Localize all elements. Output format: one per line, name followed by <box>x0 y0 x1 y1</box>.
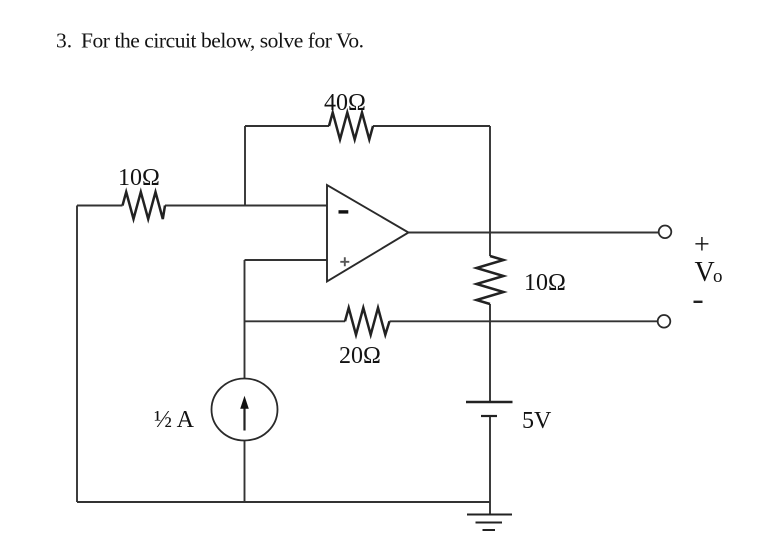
wire: inverting-input row left segment <box>77 205 123 207</box>
wire: non-inverting input horizontal <box>245 259 328 261</box>
battery V1 long plate <box>466 401 513 404</box>
wire: inverting-input row right segment to op-amp <box>165 205 327 207</box>
wire: output row to terminal <box>409 232 659 234</box>
current source I1 circle <box>212 379 278 441</box>
current source I1 arrow head <box>240 396 249 409</box>
svg-text:For the circuit below, solve f: For the circuit below, solve for Vo. <box>81 29 364 53</box>
svg-text:V: V <box>695 257 715 288</box>
wire: feedback left vertical <box>244 126 246 206</box>
resistor R4 10ohm (right, vertical) <box>477 256 504 304</box>
resistor R2 40ohm (feedback, horizontal) <box>329 113 373 140</box>
wire: lower output row left segment with 20ohm <box>245 320 346 322</box>
wire: left vertical branch <box>76 206 78 503</box>
svg-text:10Ω: 10Ω <box>524 270 566 296</box>
label: output minus sign <box>694 301 703 303</box>
svg-text:5V: 5V <box>522 408 552 434</box>
terminal: negative output node circle <box>658 315 671 328</box>
wire: feedback top left segment <box>245 125 329 127</box>
wire: bottom horizontal rail <box>77 501 490 503</box>
svg-text:3.: 3. <box>56 29 72 53</box>
ground symbol <box>467 515 512 531</box>
wire: current source bottom to rail <box>244 441 246 503</box>
svg-text:o: o <box>713 266 723 287</box>
resistor R1 10ohm (left, horizontal) <box>123 192 166 219</box>
op-amp U1 triangle <box>327 185 409 282</box>
battery V1 short plate <box>481 415 497 417</box>
op-amp U1 non-inverting (+) marker <box>340 257 349 266</box>
wire: lower output row right segment to terminal <box>390 320 658 322</box>
svg-text:½ A: ½ A <box>154 407 195 433</box>
terminal: positive output node circle <box>659 226 672 239</box>
wire: feedback top right segment <box>373 125 490 127</box>
svg-text:+: + <box>694 230 710 261</box>
wire: feedback right vertical to output node <box>489 126 491 233</box>
op-amp U1 inverting (-) marker <box>339 210 349 213</box>
wire: non-inverting vertical down to current source <box>244 260 246 378</box>
resistor R3 20ohm (horizontal) <box>345 308 390 335</box>
wire: right vertical 10ohm resistor to battery <box>489 304 491 402</box>
svg-text:40Ω: 40Ω <box>324 90 366 116</box>
svg-text:10Ω: 10Ω <box>118 165 160 191</box>
svg-text:20Ω: 20Ω <box>339 343 381 369</box>
wire: right vertical output node to 10ohm resistor <box>489 233 491 257</box>
wire: battery to ground <box>489 416 491 515</box>
current source I1 arrow shaft <box>243 405 245 431</box>
